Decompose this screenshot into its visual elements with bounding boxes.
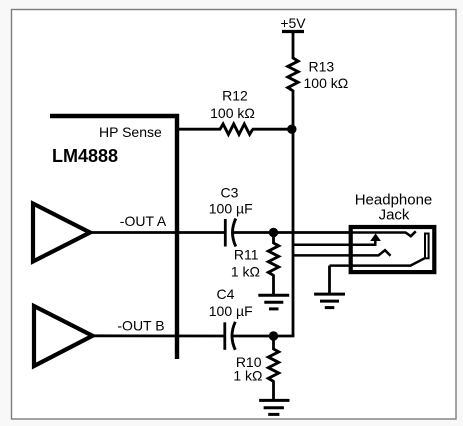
wire: +5V rail down to R13 [292, 32, 295, 60]
ground (R11) [258, 294, 289, 297]
svg-text:R12: R12 [222, 88, 248, 104]
resistor R13 [288, 58, 298, 91]
+5V power rail bar [282, 30, 304, 33]
svg-text:Jack: Jack [379, 207, 410, 224]
ground (R10) [259, 399, 289, 402]
svg-text:R13: R13 [309, 59, 335, 75]
junction node R10 top [269, 331, 278, 340]
svg-text:C3: C3 [221, 185, 239, 201]
capacitor C3 [224, 219, 227, 247]
headphone jack J1 outline [351, 227, 435, 272]
amplifier B triangle [34, 306, 93, 366]
wire: C4 to main vertical [233, 335, 294, 338]
wire: detect line from main vertical [293, 243, 375, 246]
svg-text:-OUT A: -OUT A [120, 213, 167, 229]
resistor R10 [268, 349, 278, 381]
svg-text:100 kΩ: 100 kΩ [210, 105, 255, 121]
svg-text:1 kΩ: 1 kΩ [231, 264, 260, 280]
wire: HP Sense to R12 [177, 128, 221, 131]
op-amp/box LM4888 outline (HP Sense pin and right edge) [50, 116, 177, 359]
jack tip contact with notch [352, 231, 416, 236]
svg-text:100 µF: 100 µF [209, 303, 253, 319]
wire: C3 to headphone jack tip contact [234, 231, 353, 234]
wire: R10 to ground [272, 381, 275, 401]
wire: sleeve to ground [328, 266, 331, 295]
wire: -OUT B to C4 [93, 334, 225, 337]
wire: R11 to ground [272, 275, 275, 296]
svg-text:1 kΩ: 1 kΩ [233, 368, 262, 384]
capacitor C4 [223, 322, 226, 350]
svg-text:R11: R11 [234, 247, 259, 263]
wire: R12 to junction node [252, 128, 293, 131]
wire+contact: ring contact with bump [293, 250, 391, 256]
junction node R12/R13 [287, 125, 296, 134]
wire: R13 down to junction and main vertical down to -OUT B [292, 90, 295, 336]
svg-text:100 µF: 100 µF [209, 201, 253, 217]
wire: junction down to R11 [272, 233, 275, 245]
svg-text:LM4888: LM4888 [52, 146, 118, 166]
resistor R12 [220, 124, 253, 134]
wire: -OUT A to C3 [90, 231, 225, 234]
junction node R11 top [269, 228, 278, 237]
sleeve line to barrel [330, 258, 425, 265]
resistor R11 [268, 243, 278, 275]
svg-text:-OUT B: -OUT B [117, 318, 164, 334]
wire: junction down to R10 [272, 336, 275, 350]
jack detect arrow [374, 240, 377, 246]
svg-text:+5V: +5V [280, 15, 306, 31]
jack plug barrel [425, 234, 429, 259]
ground (jack) [314, 293, 345, 296]
svg-text:HP Sense: HP Sense [99, 124, 162, 140]
svg-text:C4: C4 [217, 286, 235, 302]
svg-text:100 kΩ: 100 kΩ [304, 75, 349, 91]
amplifier A triangle [33, 204, 90, 262]
